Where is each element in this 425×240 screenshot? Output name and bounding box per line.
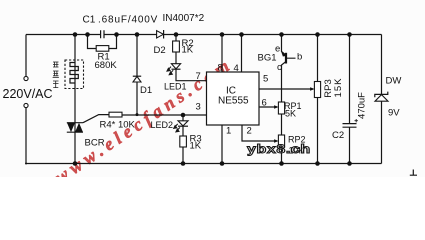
- svg-text:C2: C2: [332, 130, 344, 141]
- svg-text:DW: DW: [386, 76, 402, 87]
- svg-text:R4* 10K: R4* 10K: [100, 120, 136, 131]
- svg-text:D2: D2: [154, 45, 166, 56]
- svg-text:C1: C1: [83, 15, 96, 26]
- svg-text:470uF: 470uF: [357, 92, 368, 119]
- svg-text:.68uF/400V: .68uF/400V: [98, 15, 158, 26]
- svg-text:15K: 15K: [333, 78, 344, 98]
- svg-text:1K: 1K: [182, 45, 194, 56]
- svg-text:b: b: [297, 52, 302, 63]
- svg-text:e: e: [275, 44, 280, 55]
- svg-text:BCR: BCR: [85, 138, 105, 149]
- svg-text:220V/AC: 220V/AC: [3, 87, 53, 101]
- svg-text:9V: 9V: [388, 108, 400, 119]
- svg-text:7: 7: [196, 71, 201, 82]
- svg-text:LED1: LED1: [164, 82, 187, 92]
- svg-text:IN4007*2: IN4007*2: [163, 13, 205, 24]
- svg-text:c: c: [277, 62, 282, 73]
- svg-text:NE555: NE555: [218, 96, 249, 107]
- svg-text:BG1: BG1: [258, 53, 277, 64]
- svg-text:5: 5: [263, 74, 268, 85]
- svg-text:D1: D1: [140, 85, 152, 96]
- svg-text:4: 4: [234, 63, 239, 74]
- svg-text:3: 3: [196, 102, 201, 113]
- svg-text:6: 6: [262, 98, 267, 109]
- svg-text:LED2: LED2: [151, 120, 174, 130]
- svg-text:1: 1: [226, 126, 231, 137]
- svg-text:1K: 1K: [190, 141, 202, 152]
- svg-text:8: 8: [218, 63, 223, 74]
- svg-text:2: 2: [247, 126, 252, 137]
- svg-text:5K: 5K: [285, 109, 296, 119]
- svg-text:680K: 680K: [95, 60, 118, 71]
